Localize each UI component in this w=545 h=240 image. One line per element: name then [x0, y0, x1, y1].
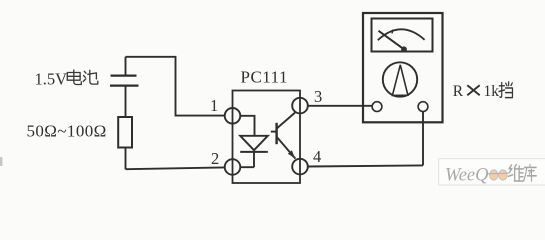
svg-text:3: 3	[314, 87, 322, 106]
wire battery to resistor	[125, 86, 127, 117]
battery B1 plates	[111, 74, 137, 76]
svg-text:4: 4	[313, 147, 321, 166]
svg-text:R: R	[453, 83, 464, 100]
pin 1 circle	[225, 108, 241, 124]
phototransistor Q1 base bar	[275, 123, 277, 144]
pin 2 circle	[225, 159, 241, 175]
wire LED cathode to pin 2	[240, 152, 254, 167]
watermark wei 维	[508, 165, 523, 181]
wire resistor bottom	[125, 148, 127, 170]
multimeter M1 case	[363, 13, 443, 122]
multimeter left terminal	[372, 102, 382, 112]
svg-text:1k: 1k	[484, 83, 500, 100]
battery B1 top riser wire	[125, 57, 127, 75]
wire bottom right pin 4 to meter	[308, 165, 423, 166]
wire pin 3 to left terminal	[308, 105, 372, 107]
label x (times)	[467, 85, 479, 95]
LED D1 triangle	[240, 136, 268, 150]
multimeter needle	[379, 31, 405, 50]
wire pin1 to LED anode	[240, 116, 254, 136]
label 电	[67, 70, 81, 85]
multimeter display window	[372, 19, 433, 52]
svg-text:50Ω~100Ω: 50Ω~100Ω	[27, 122, 107, 141]
multimeter scale tick	[392, 30, 393, 34]
multimeter right terminal	[418, 102, 428, 112]
svg-text:1.5V: 1.5V	[35, 70, 68, 89]
LED D1 cathode bar	[240, 151, 268, 153]
phototransistor Q1 emitter	[277, 137, 296, 159]
svg-text:PC111: PC111	[241, 68, 289, 87]
phototransistor Q1 base stub	[271, 131, 277, 133]
multimeter needle pivot	[401, 46, 407, 52]
phototransistor Q1 emitter arrow	[288, 150, 295, 158]
label dang 挡	[499, 82, 512, 98]
watermark Q tail strike	[488, 172, 509, 175]
multimeter range dial	[383, 62, 417, 96]
pin 3 circle	[292, 98, 308, 114]
wire right terminal down	[422, 112, 424, 166]
watermark box	[439, 159, 545, 185]
svg-text:1: 1	[210, 96, 218, 115]
multimeter scale arc	[378, 29, 425, 40]
scan smudge left edge	[0, 157, 2, 166]
watermark ku 库	[524, 165, 536, 181]
pin 4 circle	[292, 159, 308, 175]
wire bottom left to pin 2	[126, 167, 225, 169]
svg-text:WeeQ: WeeQ	[445, 166, 489, 186]
label 池	[83, 70, 98, 84]
watermark o dot 2	[499, 170, 507, 180]
phototransistor Q1 collector	[277, 113, 295, 129]
resistor R1 body	[118, 117, 132, 148]
wire top run to pin 1	[126, 57, 225, 116]
multimeter dial pointer	[392, 65, 408, 96]
optocoupler U1 PC111 body	[233, 91, 301, 184]
svg-text:2: 2	[211, 149, 219, 168]
watermark o dot 1	[490, 170, 498, 180]
